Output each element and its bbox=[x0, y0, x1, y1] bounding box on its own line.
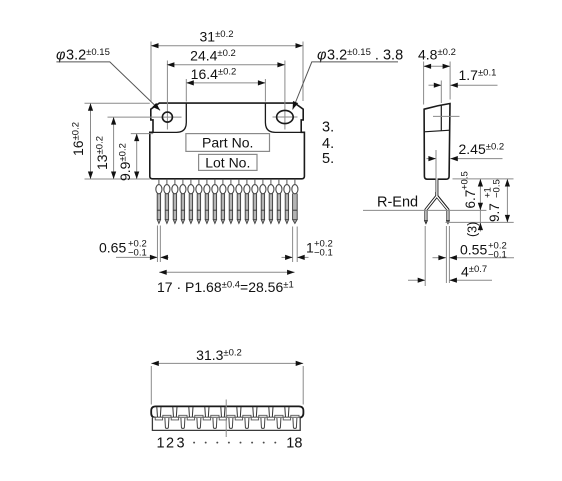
svg-text:0.55: 0.55 bbox=[460, 242, 487, 258]
pin 16 (front view) bbox=[276, 179, 282, 224]
pin 15 (bottom view, back row) bbox=[267, 407, 274, 420]
svg-text:−0.1: −0.1 bbox=[314, 248, 333, 259]
pin 7 (front view) bbox=[204, 179, 210, 224]
dimension 13 +-0.2 (hole center height) bbox=[113, 117, 115, 179]
right oblong mounting hole bbox=[277, 110, 294, 123]
svg-text:4.: 4. bbox=[322, 136, 334, 152]
left mounting hole outline bbox=[162, 112, 172, 122]
bottom view lower bar bbox=[152, 418, 300, 431]
pin 6 (bottom view, front row) bbox=[195, 415, 203, 428]
svg-text:Lot No.: Lot No. bbox=[205, 154, 250, 170]
dimension 9.7 +1/-0.5 bbox=[506, 179, 508, 222]
pin 1 (front view) bbox=[156, 179, 162, 224]
dimension 16.4 +-0.2 (between ear inner edges) bbox=[185, 79, 187, 102]
side view pin stem and bent legs (double line) bbox=[426, 179, 437, 221]
side pin tips bbox=[425, 221, 428, 224]
pin tip reference line bbox=[446, 221, 514, 223]
svg-text:−0.1: −0.1 bbox=[488, 250, 507, 261]
pin 4 (front view) bbox=[180, 179, 186, 224]
ellipsis dots bbox=[193, 442, 195, 444]
front view body outline bbox=[150, 103, 305, 179]
Part No. box bbox=[186, 134, 270, 152]
pin 13 (front view) bbox=[252, 179, 258, 224]
svg-text:123: 123 bbox=[157, 436, 185, 452]
pin 7 (bottom view, back row) bbox=[203, 407, 210, 420]
left ear shoulder and fillet bbox=[153, 103, 186, 132]
svg-text:+0.5: +0.5 bbox=[460, 171, 471, 190]
svg-text:1: 1 bbox=[306, 240, 314, 256]
svg-text:−0.1: −0.1 bbox=[128, 248, 147, 259]
Lot No. box bbox=[199, 154, 257, 170]
dimension 4.8 +-0.2 (body width) bbox=[423, 62, 425, 105]
left mounting hole bbox=[162, 112, 172, 122]
pin 10 (bottom view, front row) bbox=[227, 415, 235, 428]
dimension 1 +0.2/-0.1 (corner pin width) bbox=[282, 256, 293, 258]
svg-text:φ: φ bbox=[56, 48, 65, 64]
right oblong mounting hole outline bbox=[277, 110, 294, 123]
pin 9 (bottom view, back row) bbox=[219, 407, 226, 420]
dimension 0.65 +0.2/-0.1 (pin width) bbox=[116, 256, 157, 258]
pin 8 (front view) bbox=[212, 179, 218, 224]
bottom view upper bar bbox=[151, 406, 303, 417]
pin 9 (front view) bbox=[220, 179, 226, 224]
dimension 6.7 and (3) vertical line bbox=[479, 179, 481, 232]
dimension 4 +-0.7 (row spacing) bbox=[408, 279, 425, 281]
pin 2 (bottom view, front row) bbox=[163, 415, 171, 428]
pin 13 (bottom view, back row) bbox=[251, 407, 258, 420]
pin 12 (bottom view, front row) bbox=[243, 415, 251, 428]
svg-text:−0.5: −0.5 bbox=[492, 179, 503, 198]
pin 17 (bottom view, back row) bbox=[283, 407, 290, 420]
pin 6 (front view) bbox=[196, 179, 202, 224]
svg-text:9.7: 9.7 bbox=[487, 203, 502, 222]
svg-text:Part No.: Part No. bbox=[202, 134, 253, 150]
right mounting hole centerlines bbox=[273, 116, 298, 118]
pin 15 (front view) bbox=[268, 179, 274, 224]
pin 16 (bottom view, front row) bbox=[275, 415, 283, 428]
pin 3 (bottom view, back row) bbox=[171, 407, 178, 420]
dimension 16 +-0.2 (overall height) bbox=[85, 102, 150, 104]
pin 11 (bottom view, back row) bbox=[235, 407, 242, 420]
dimension 1.7 +-0.1 bbox=[440, 81, 442, 104]
pin 14 (front view) bbox=[260, 179, 266, 224]
svg-text:5.: 5. bbox=[322, 151, 334, 167]
side view flange inner line bbox=[440, 105, 442, 131]
dimension (3) arrows bbox=[478, 223, 483, 231]
pin 4 (bottom view, front row) bbox=[179, 415, 187, 428]
dimension 0.55 +0.2/-0.1 (lead thickness) bbox=[433, 257, 446, 259]
dimension 24.4 +-0.2 (hole spacing) bbox=[167, 64, 285, 66]
left mounting hole centerlines bbox=[108, 116, 182, 118]
side view body outline bbox=[424, 104, 450, 180]
side hole center mark bbox=[433, 115, 460, 117]
dimension 17*P1.68=28.56 (pin pitch span) bbox=[159, 271, 294, 273]
pin 3 (front view) bbox=[172, 179, 178, 224]
dimension 9.9 +-0.2 (shoulder height) bbox=[131, 133, 153, 135]
side view mold parting line bbox=[424, 130, 450, 132]
svg-text:18: 18 bbox=[286, 436, 302, 452]
pin 17 (front view) bbox=[284, 179, 290, 224]
pin 8 (bottom view, front row) bbox=[211, 415, 219, 428]
svg-text:(3): (3) bbox=[466, 222, 480, 237]
pin 18 (bottom view, front row) bbox=[291, 415, 299, 428]
dimension 31 +-0.2 (flange width) bbox=[150, 42, 152, 102]
pin 10 (front view) bbox=[228, 179, 234, 224]
body bottom reference line bbox=[453, 178, 514, 180]
pin 18 (front view) bbox=[292, 179, 298, 224]
svg-text:6.7: 6.7 bbox=[463, 190, 478, 209]
pin 5 (front view) bbox=[188, 179, 194, 224]
svg-text:0.65: 0.65 bbox=[99, 240, 126, 256]
pin 12 (front view) bbox=[244, 179, 250, 224]
pin 1 (bottom view, back row) bbox=[155, 407, 162, 420]
pin 2 (front view) bbox=[164, 179, 170, 224]
bottom view center line bbox=[225, 400, 227, 438]
svg-text:3.: 3. bbox=[322, 120, 334, 136]
pin 5 (bottom view, back row) bbox=[187, 407, 194, 420]
pin 14 (bottom view, front row) bbox=[259, 415, 267, 428]
side pin tail extension lines bbox=[424, 226, 426, 286]
dimension 31.3 +-0.2 (overall width) bbox=[150, 366, 152, 405]
dimension 2.45 +-0.2 bbox=[435, 150, 437, 192]
svg-text:R-End: R-End bbox=[377, 195, 418, 211]
pin 11 (front view) bbox=[236, 179, 242, 224]
svg-text:φ: φ bbox=[317, 48, 326, 64]
right ear shoulder and fillet bbox=[265, 103, 301, 132]
pin 1 width extension lines bbox=[156, 226, 158, 263]
pin 18 width extension lines bbox=[292, 227, 294, 263]
